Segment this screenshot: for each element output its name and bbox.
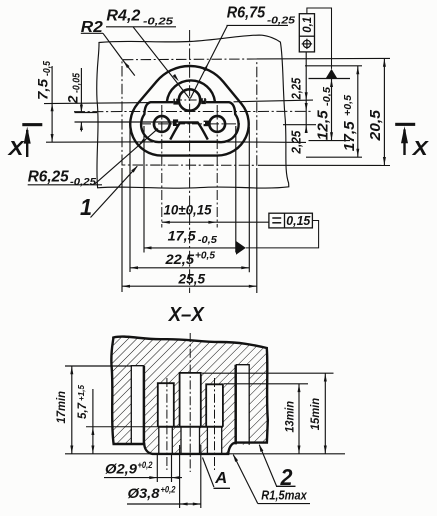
svg-text:R4,2: R4,2 bbox=[106, 8, 140, 25]
connector face outer outline (cloverleaf) bbox=[130, 66, 248, 156]
svg-text:Ø3,8: Ø3,8 bbox=[128, 486, 161, 501]
horizontal main axis centerline bbox=[74, 110, 313, 112]
svg-text:22,5: 22,5 bbox=[164, 252, 194, 267]
svg-text:12,5: 12,5 bbox=[316, 109, 332, 140]
left pin channel (A) bbox=[158, 383, 174, 427]
top pin horizontal centerline bbox=[174, 99, 207, 101]
section plane mark right bbox=[395, 123, 415, 126]
svg-text:2: 2 bbox=[65, 95, 81, 104]
dimension 13min line bbox=[298, 384, 300, 454]
extension line rect-right below bbox=[256, 168, 258, 293]
extension line recess-left below bbox=[143, 126, 145, 253]
svg-text:R1,5max: R1,5max bbox=[261, 488, 307, 502]
svg-text:1: 1 bbox=[80, 194, 92, 220]
symmetry tolerance frame =|0,15 bbox=[269, 213, 313, 228]
svg-text:-0,25: -0,25 bbox=[267, 15, 295, 27]
dimension 12,5-0,5 line bbox=[331, 79, 333, 141]
lower pins horizontal centerline bbox=[141, 123, 240, 125]
svg-text:15min: 15min bbox=[310, 398, 322, 431]
svg-text:+1,5: +1,5 bbox=[76, 385, 86, 401]
svg-text:-0,25: -0,25 bbox=[70, 176, 96, 188]
panel plate with broken (wavy) edges bbox=[97, 35, 289, 188]
svg-text:25,5: 25,5 bbox=[178, 271, 206, 286]
svg-text:0,1: 0,1 bbox=[300, 16, 314, 32]
svg-text:X: X bbox=[7, 138, 25, 160]
top recess arc R4,2 bbox=[167, 80, 215, 101]
svg-text:13min: 13min bbox=[285, 401, 297, 433]
extension line shoulder right bbox=[234, 100, 314, 102]
dimension 2-0,05 line bbox=[80, 68, 82, 113]
dimension 10±0,15 line with symmetry leader bbox=[162, 221, 269, 223]
extension line recess bottom stub (12,5 bottom) bbox=[309, 140, 351, 142]
svg-text:7,5: 7,5 bbox=[35, 79, 51, 100]
extension line recess-right below bbox=[235, 126, 237, 253]
channel centerline C bbox=[214, 378, 216, 470]
extension line axis left (2 top) bbox=[75, 112, 98, 114]
extension line outline-left below bbox=[129, 127, 131, 272]
aperture recess outline bbox=[141, 102, 239, 142]
vertical main axis centerline bbox=[189, 30, 191, 293]
frame connector line bbox=[307, 8, 332, 69]
svg-text:Ø2,9: Ø2,9 bbox=[105, 461, 138, 476]
extension line 20,5 top bbox=[257, 57, 390, 60]
right cavity slot bbox=[234, 365, 237, 445]
svg-text:2,25: 2,25 bbox=[289, 77, 304, 100]
svg-text:10±0,15: 10±0,15 bbox=[164, 203, 212, 218]
dimension 20,5 line bbox=[383, 58, 385, 165]
right pin vertical centerline bbox=[216, 105, 218, 228]
svg-text:X–X: X–X bbox=[168, 304, 205, 326]
contact slot mark top-left bbox=[173, 99, 178, 105]
svg-text:-0,25: -0,25 bbox=[143, 16, 173, 28]
dimension 17min line bbox=[71, 366, 73, 454]
extension line bridge left (2 bottom) bbox=[75, 121, 180, 123]
dimension Ø2,9+0,2 line bbox=[104, 477, 182, 479]
svg-text:R6,75: R6,75 bbox=[227, 5, 266, 22]
extension line left slot top bbox=[65, 365, 131, 367]
dimension 25,5 line bbox=[122, 285, 257, 287]
symmetry frame connector bbox=[246, 221, 319, 248]
section body hatched bbox=[111, 337, 267, 455]
svg-text:X: X bbox=[412, 138, 430, 160]
position tolerance frame 0,1 bbox=[299, 14, 314, 52]
dimension 7,5-0,5 line bbox=[51, 66, 53, 142]
right pin channel (C) bbox=[206, 384, 223, 426]
svg-text:+0,5: +0,5 bbox=[195, 250, 215, 261]
extension line 17,5 bottom bbox=[306, 156, 362, 158]
svg-text:17min: 17min bbox=[56, 391, 68, 424]
channel centerline B (axis) bbox=[189, 333, 191, 472]
channel centerline A bbox=[166, 378, 168, 470]
dimension 22,5+0,5 line bbox=[130, 267, 249, 269]
dimension 15min line bbox=[324, 373, 326, 454]
contact slot mark top-right bbox=[201, 98, 206, 104]
extension line datum stub (12,5 top) bbox=[309, 78, 351, 80]
dimension 17,5+0,5 line bbox=[357, 66, 359, 157]
extension line 17,5 top bbox=[305, 65, 362, 67]
contact slot mark mid-left bbox=[173, 119, 178, 126]
central bridge between lower recesses bbox=[170, 123, 208, 140]
shoulder line in section bbox=[86, 426, 158, 428]
dash-dot reference rectangle (item 1, seal line) bbox=[122, 59, 257, 165]
svg-text:-0,5: -0,5 bbox=[198, 235, 217, 246]
extension lines diameter 3,8 bbox=[179, 445, 181, 508]
svg-text:+0,5: +0,5 bbox=[343, 95, 354, 116]
svg-text:17,5: 17,5 bbox=[342, 120, 358, 151]
extension line bottom of moulding bbox=[65, 453, 152, 455]
extension line shoulder left (7,5 top) bbox=[44, 103, 150, 104]
left pin hole bbox=[154, 116, 170, 132]
svg-text:0,15: 0,15 bbox=[286, 214, 311, 228]
svg-text:20,5: 20,5 bbox=[368, 109, 384, 142]
extension line outline-right below bbox=[248, 127, 250, 272]
svg-text:R6,25: R6,25 bbox=[28, 168, 69, 185]
svg-text:+0,2: +0,2 bbox=[138, 460, 154, 471]
extension line recess bottom bbox=[46, 141, 153, 143]
svg-text:+0,2: +0,2 bbox=[161, 484, 177, 495]
extension lines diameter 2,9 bbox=[156, 455, 158, 482]
svg-text:5,7: 5,7 bbox=[77, 402, 89, 419]
datum triangle on 17,5 bbox=[236, 241, 246, 255]
svg-text:-0,5: -0,5 bbox=[42, 61, 53, 76]
left pin vertical centerline bbox=[161, 105, 163, 228]
center channel (B) bbox=[180, 373, 201, 427]
contact slot mark mid-right bbox=[204, 121, 209, 127]
extension line rect-left below bbox=[121, 168, 123, 292]
section outer outline bbox=[111, 337, 267, 454]
right pin hole bbox=[209, 116, 225, 132]
dimension 17,5-0,5 line bbox=[144, 247, 237, 249]
frame leader arrow line (2,25 dims) bbox=[305, 52, 307, 132]
extension line 15min top bbox=[202, 372, 334, 374]
extension line lower pin axis right bbox=[283, 124, 316, 126]
svg-text:A: A bbox=[214, 470, 227, 487]
section plane mark left bbox=[22, 123, 42, 126]
svg-text:2,25: 2,25 bbox=[289, 130, 304, 155]
svg-text:-0,05: -0,05 bbox=[72, 73, 83, 93]
svg-text:-0,5: -0,5 bbox=[322, 87, 333, 106]
datum triangle bbox=[326, 69, 337, 78]
svg-text:17,5: 17,5 bbox=[168, 229, 197, 244]
extension line 20,5 bottom bbox=[258, 164, 390, 166]
top pin hole bbox=[179, 89, 200, 110]
dimension Ø3,8+0,2 line bbox=[127, 503, 201, 505]
extension line 13min top bbox=[224, 383, 308, 385]
position symbol bbox=[303, 40, 310, 47]
left cavity slot bbox=[131, 366, 144, 445]
dimension 5,7+1,5 line bbox=[92, 389, 94, 454]
